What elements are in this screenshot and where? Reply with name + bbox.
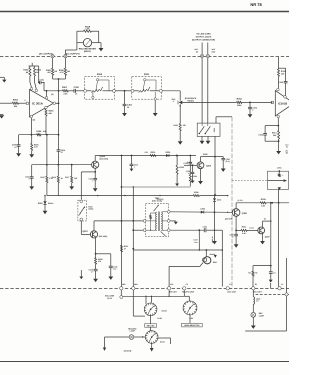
pin top2 IC301A [35, 89, 38, 92]
svg-text:(DC OUTPUT): (DC OUTPUT) [66, 52, 80, 55]
rotary switch S3 [145, 330, 165, 344]
potentiometer R311 [134, 79, 159, 93]
wire emitter to CDS [81, 172, 95, 200]
rec head arrow [268, 179, 288, 190]
wire supply rail [95, 155, 196, 157]
pin top IC301A [30, 87, 33, 90]
svg-text:1.3: 1.3 [229, 283, 231, 286]
ground R314 [276, 144, 288, 155]
diode D301 on rail [166, 151, 172, 157]
wire Q308 collector [201, 153, 216, 162]
label VOL UNIT PCB [105, 295, 115, 300]
svg-text:2M4: 2M4 [134, 283, 137, 286]
wire L401 to lamp [252, 304, 254, 312]
svg-text:C302: C302 [74, 86, 80, 89]
svg-text:2: 2 [252, 109, 253, 112]
wire Q302 base line [32, 164, 92, 166]
resistor R324 [189, 175, 197, 183]
wire erase vert [221, 230, 223, 286]
pin T301 left upper [143, 220, 146, 223]
svg-text:C315: C315 [89, 268, 93, 271]
jack circle left [200, 54, 203, 57]
wire from DC node [64, 58, 66, 68]
label jack wht-rd [194, 48, 216, 53]
svg-text:3M1: 3M1 [122, 283, 125, 286]
wire jack left down [201, 58, 203, 123]
svg-text:47: 47 [124, 247, 126, 250]
wire main line C [75, 90, 83, 92]
resistor R312 [237, 98, 243, 107]
resistor R302 [23, 68, 30, 77]
capacitor C319 [229, 230, 238, 238]
svg-text:(OSC COIL): (OSC COIL) [152, 199, 163, 202]
svg-text:R311: R311 [144, 73, 150, 76]
wire Q302 collector [94, 156, 96, 162]
svg-text:E301: E301 [213, 261, 217, 264]
wire Q306 emitter [235, 216, 237, 231]
svg-text:D304: D304 [217, 198, 221, 201]
svg-text:C316: C316 [113, 265, 117, 268]
record box [145, 324, 157, 328]
svg-text:1: 1 [29, 178, 30, 181]
svg-text:(AC OUTPUT): (AC OUTPUT) [39, 52, 53, 55]
svg-text:C4: C4 [273, 271, 275, 274]
capacitor C304 [248, 102, 258, 111]
connector pin 1.3 on rail [226, 283, 237, 294]
resistor R333 jack load [174, 124, 187, 131]
rec head top tap [277, 166, 283, 176]
wire Q303 collector [93, 221, 95, 231]
pin T301 right lower [167, 229, 170, 232]
dashed boundary top [0, 56, 289, 58]
svg-text:1M: 1M [26, 71, 29, 74]
svg-text:D303: D303 [201, 207, 205, 210]
svg-text:R333: R333 [174, 124, 178, 127]
svg-text:R4: R4 [248, 272, 250, 275]
wire R304 down [45, 116, 47, 135]
capacitor C308 [186, 165, 194, 175]
pin hyp upper IC301A [45, 90, 48, 99]
capacitor C316 [109, 254, 118, 271]
rotary switch S2 [183, 301, 198, 316]
svg-text:C305: C305 [279, 81, 283, 84]
svg-text:R323: R323 [179, 166, 183, 169]
ground R309 [29, 151, 34, 158]
wire S301 down [214, 136, 216, 195]
ground left edge upper [0, 77, 7, 82]
pin 2 input [24, 99, 28, 104]
svg-text:IC 301A: IC 301A [32, 102, 44, 106]
wire fb left [278, 57, 280, 69]
wire R305 to junction [53, 75, 66, 80]
wire from AC node [52, 58, 54, 68]
dashed boundary bottom rail [0, 288, 289, 290]
wire between pots [116, 90, 132, 92]
wire osc collector line [94, 220, 144, 222]
capacitor C318 [269, 266, 276, 275]
svg-text:(M101): (M101) [84, 50, 91, 53]
node DC OUTPUT [64, 52, 80, 58]
pin R310 right [113, 89, 116, 92]
ground R323 [175, 174, 179, 186]
wire jack right down [207, 58, 209, 123]
ground lamp [251, 317, 256, 329]
ground C311 [29, 178, 34, 190]
svg-text:R312: R312 [237, 98, 243, 101]
ground T301 mid [170, 221, 178, 225]
wire supply line right [236, 202, 289, 204]
svg-text:HEAD): HEAD) [187, 99, 194, 102]
rotary switch S1 [144, 303, 167, 317]
wire S301 top right loop [216, 117, 232, 123]
dashed box T301 [146, 197, 169, 237]
wire 2M4 to S1 [133, 290, 145, 316]
svg-text:R324: R324 [193, 175, 197, 178]
svg-text:R315: R315 [40, 176, 44, 179]
svg-text:C301: C301 [39, 78, 43, 81]
jack circle right [206, 54, 209, 57]
wire input to op-amp [19, 102, 27, 104]
svg-text:C31: C31 [145, 151, 148, 154]
svg-text:(2SC1096): (2SC1096) [99, 235, 108, 238]
svg-text:5: 5 [173, 100, 174, 103]
ground left edge lower [0, 115, 4, 119]
svg-text:56: 56 [255, 283, 257, 286]
svg-text:NR 78: NR 78 [250, 2, 262, 7]
ground Q308 emitter [198, 169, 203, 185]
connector pin 56 on rail [252, 283, 263, 294]
capacitor C310 [56, 149, 65, 154]
pin top IC301B [277, 88, 280, 91]
connector pin C4 on rail [182, 283, 195, 294]
wire vol pin [120, 290, 122, 295]
resistor R305 [46, 68, 57, 75]
wire right margin [245, 258, 286, 331]
wire x46 down [46, 135, 48, 165]
svg-text:(470): (470) [277, 166, 282, 169]
wire R302 R303 top bar [29, 63, 39, 68]
pin R311 left [131, 89, 134, 92]
inductor L401 [253, 297, 260, 305]
head selector box [182, 323, 203, 327]
svg-text:1.5: 1.5 [256, 300, 258, 303]
pin output IC301A [53, 102, 56, 105]
connector pin 2M4 on rail [132, 283, 138, 290]
wire lamp left [105, 337, 130, 348]
capacitor C303 [123, 91, 133, 109]
wire output lead [51, 93, 58, 103]
zener D302 [38, 195, 54, 205]
svg-text:Q303: Q303 [82, 230, 88, 233]
svg-text:P.C.B: P.C.B [107, 297, 112, 300]
dashed wire to head unit [231, 117, 233, 288]
svg-text:560: 560 [67, 70, 70, 73]
pin hyp IC301A [45, 106, 48, 109]
svg-text:2.2K: 2.2K [261, 204, 266, 207]
capacitor C305 fb [279, 81, 288, 84]
wire jack left up [201, 43, 203, 55]
dashed head line [232, 180, 268, 182]
svg-text:OUTPUT JACKS: OUTPUT JACKS [196, 35, 212, 38]
op-amp IC301B [275, 91, 294, 116]
resistor R316 [52, 165, 64, 196]
svg-text:470: 470 [98, 260, 101, 263]
ground C307 [221, 160, 226, 172]
rec head box [268, 171, 289, 189]
ground C304 [248, 109, 253, 118]
resistor R309 [31, 135, 39, 151]
wire supply to rail pin [278, 203, 280, 287]
svg-text:R317: R317 [65, 176, 69, 179]
wire S1 to S2 [184, 290, 189, 301]
svg-text:OSC UNIT: OSC UNIT [227, 291, 237, 294]
resistor R321 on rail [145, 151, 157, 157]
svg-text:C313: C313 [134, 163, 138, 166]
ground C319 [234, 236, 239, 248]
lamp REC [251, 312, 265, 317]
wire S2 to selector box [189, 315, 191, 324]
wire erase to rail [168, 266, 170, 286]
wire Q307 base line [236, 227, 258, 231]
resistor R308 [36, 130, 46, 136]
capacitor C314 [183, 156, 192, 166]
wire B+ rail [47, 195, 229, 196]
ground C303 [122, 106, 127, 117]
wire fb to hyp pin [285, 83, 287, 96]
svg-text:RD5.6: RD5.6 [48, 202, 53, 205]
capacitor C404 series [198, 225, 207, 232]
svg-text:1.3: 1.3 [281, 283, 283, 286]
resistor R328 inner [150, 213, 156, 231]
wire low bus [122, 186, 191, 187]
resistor R313 [278, 69, 287, 77]
wire erase lower line [170, 230, 222, 231]
ground R311 [153, 100, 158, 116]
svg-text:HEAD SELECTOR: HEAD SELECTOR [184, 324, 200, 327]
capacitor C309 [12, 135, 21, 149]
svg-text:IC301B: IC301B [278, 103, 287, 106]
connector pin 1.3 on rail [278, 283, 283, 290]
svg-text:R307: R307 [62, 86, 68, 89]
wire Q303 emitter [95, 238, 97, 255]
transistor Q307 [258, 227, 271, 238]
svg-text:100K: 100K [237, 104, 242, 107]
pin R311 right [159, 89, 162, 92]
svg-text:(OUTPUT CONNECTOR): (OUTPUT CONNECTOR) [192, 39, 215, 42]
resistor R329 [260, 198, 266, 207]
svg-text:C4: C4 [186, 283, 188, 286]
svg-text:10: 10 [14, 146, 16, 149]
wire feed vertical [121, 155, 123, 287]
dashed box R311 [132, 73, 162, 99]
wire Q302 emitter [94, 168, 96, 173]
capacitor C301 bypass [38, 66, 45, 91]
resistor R303 [34, 68, 42, 77]
svg-text:10: 10 [127, 106, 129, 109]
resistor R326 [95, 254, 103, 264]
ground D302 [43, 205, 48, 215]
svg-text:(1.2V): (1.2V) [238, 199, 243, 202]
resistor R317 [65, 165, 78, 183]
svg-text:1.5K: 1.5K [85, 28, 90, 31]
wire input left [0, 102, 12, 104]
pin input IC301B [271, 101, 273, 103]
wire R303 to pin [35, 76, 37, 89]
svg-text:ER UNIT: ER UNIT [169, 291, 177, 294]
svg-text:(3): (3) [33, 119, 36, 122]
capacitor C315 [89, 264, 98, 273]
wire ER pin down [168, 290, 169, 297]
svg-text:R310: R310 [97, 73, 103, 76]
photoresistor R319 CDS [79, 206, 94, 217]
svg-text:Q306: Q306 [242, 212, 248, 215]
capacitor C313 [130, 156, 139, 169]
resistor R304 [45, 109, 54, 116]
potentiometer R310 [87, 79, 113, 93]
resistor R323 [176, 155, 184, 175]
wire CDS to base [81, 221, 90, 235]
ground meter [99, 43, 104, 52]
wire R334 to rail pin [252, 276, 254, 286]
wire erase head left [169, 263, 203, 267]
resistor R325 rail [193, 191, 199, 197]
transformer T301 windings [156, 212, 163, 232]
svg-text:(CDS): (CDS) [88, 208, 93, 211]
svg-text:REC UNIT: REC UNIT [253, 291, 263, 294]
capacitor C311 [25, 165, 33, 181]
svg-text:C317: C317 [193, 239, 197, 242]
capacitor C306 [258, 126, 267, 142]
svg-text:4.7K: 4.7K [60, 71, 65, 74]
pin T301 right upper [167, 210, 170, 213]
wire C318 gnd lead [270, 273, 272, 279]
wire bias bar [19, 134, 59, 136]
ground D304 [212, 241, 217, 244]
wire D304 down [211, 212, 214, 242]
wire Q306 collector [236, 199, 243, 209]
jack J301 [171, 98, 182, 104]
svg-text:RECORD: RECORD [147, 325, 155, 328]
svg-text:47: 47 [61, 151, 63, 154]
svg-text:10: 10 [75, 93, 77, 96]
dashed box R310 [85, 73, 115, 99]
record lamp PL1 [128, 327, 137, 339]
transistor Q303 [82, 230, 107, 238]
wire lamp to S3 [134, 336, 146, 337]
svg-text:C40: C40 [170, 283, 173, 286]
wire osc branch right [133, 249, 223, 251]
dashed box CDS [78, 200, 87, 221]
connector pin lower dashed [285, 293, 288, 296]
wire R302 to pin [30, 76, 32, 87]
wire output node vertical [58, 79, 60, 165]
svg-text:R325: R325 [194, 191, 198, 194]
wire Q308 base [184, 164, 197, 166]
pin CDS bottom [80, 218, 83, 221]
wire Q307 collector [263, 218, 272, 228]
resistor R306 [59, 68, 70, 75]
label output jacks [192, 33, 215, 42]
transistor Q308 [187, 161, 212, 169]
wire main line B [68, 90, 74, 92]
pin 3 bottom vertex [30, 115, 35, 121]
capacitor C302 series [74, 86, 80, 96]
wire playback line B [242, 102, 272, 104]
pin R310 left [84, 89, 87, 92]
pin CDS top [80, 200, 83, 203]
wire meter loop right [98, 31, 100, 43]
wire bias tap [270, 202, 272, 267]
switch S301 levers [199, 123, 211, 134]
svg-text:LAMP: LAMP [130, 330, 136, 333]
svg-text:R331: R331 [242, 226, 246, 229]
wire head to supply [278, 189, 280, 202]
dashed boundary lower segment [256, 294, 290, 296]
op-amp IC301A [30, 90, 54, 118]
svg-text:R301: R301 [13, 99, 19, 102]
junction ticks B+ rail [97, 195, 161, 196]
wire pin3 down [31, 118, 33, 136]
wire S1 to record box [150, 316, 152, 324]
wire main line A [44, 90, 63, 92]
pin hyp IC301B [284, 96, 287, 99]
svg-text:56: 56 [255, 272, 257, 275]
pin R311 bottom [154, 92, 156, 100]
wire output down [277, 118, 279, 127]
transistor Q306 [225, 209, 248, 221]
svg-text:LAMP: LAMP [259, 314, 265, 317]
resistor R331 [241, 226, 247, 235]
svg-text:TO LINE CORD: TO LINE CORD [196, 33, 211, 36]
wire output bar [265, 125, 279, 127]
erase head EH [203, 250, 218, 264]
label osc S2 [189, 317, 194, 320]
ground C308 [191, 174, 195, 184]
svg-text:S301: S301 [213, 128, 216, 132]
resistor R315 [40, 165, 53, 196]
wire osc lower line [132, 187, 144, 287]
capacitor C312 [89, 172, 98, 183]
ground S301 b [206, 136, 211, 144]
wire jack load [180, 104, 181, 123]
resistor R334 [248, 271, 257, 276]
wire S3 right stub [158, 338, 170, 344]
ground R333 [178, 131, 183, 145]
svg-text:C306: C306 [258, 134, 262, 137]
svg-text:10K: 10K [14, 105, 18, 108]
label play S1 [158, 317, 163, 320]
ground C316 [108, 268, 113, 280]
svg-text:(6): (6) [51, 93, 54, 96]
ground C309 [16, 146, 21, 157]
capacitor C307 [221, 157, 230, 163]
svg-text:2W: 2W [54, 70, 57, 73]
meter M101 [77, 39, 99, 53]
wire osc out line [170, 211, 232, 213]
wire C314 mid [189, 164, 191, 175]
svg-text:(2SC1000): (2SC1000) [100, 158, 109, 161]
ground CDS aux [79, 270, 83, 279]
wire gain bar [265, 140, 279, 142]
node AC OUTPUT [39, 52, 54, 58]
svg-text:C319: C319 [229, 233, 233, 236]
resistor R307 [62, 86, 68, 96]
svg-text:R316: R316 [52, 176, 56, 179]
wire meter stub [65, 31, 77, 54]
svg-text:C404: C404 [203, 225, 207, 228]
adjust arrow T301 bottom [161, 232, 166, 237]
resistor R301 [12, 99, 18, 108]
